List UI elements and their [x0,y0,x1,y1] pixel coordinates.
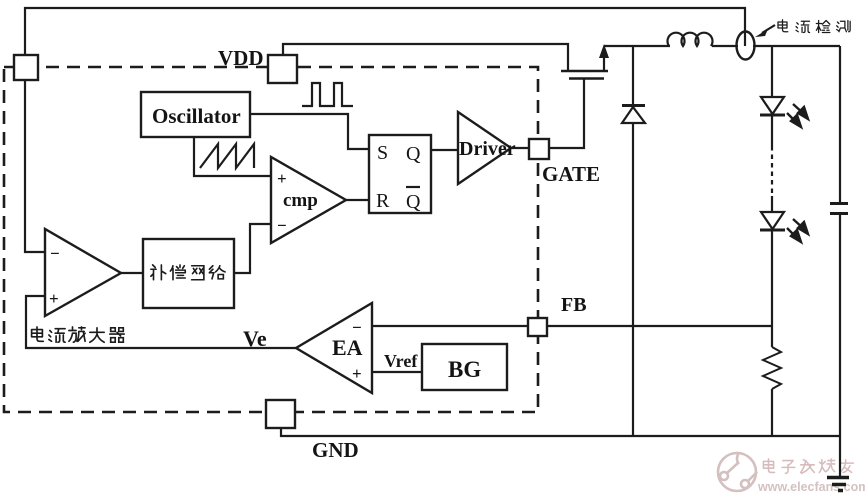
pad GATE [529,139,549,159]
buffer Driver [458,112,511,184]
watermark text dianzifashaoyou [763,459,853,473]
wire resistor to ground rail [771,389,773,436]
svg-text:Ve: Ve [243,326,267,351]
pad FB [528,318,547,336]
wire to LED2 [771,196,773,212]
wire FB net from EA inverting input to LED string [372,325,772,327]
svg-text:R: R [376,190,390,212]
svg-text:www.elecfans.com: www.elecfans.com [757,480,865,494]
wire oscillator sawtooth to cmp non-inverting input [194,136,272,176]
pad GND [266,400,295,428]
svg-text:Oscillator: Oscillator [152,104,241,128]
block compensation network [143,239,234,308]
op-amp EA error amplifier (points left) [296,303,372,393]
wire Ve rail to current-amp non-inverting input [26,296,297,348]
wire dotted LED string continuation [771,146,773,196]
wire EA non-inverting input to BG [372,371,423,373]
svg-text:GND: GND [312,438,359,462]
svg-text:+: + [49,289,59,308]
watermark elecfans logo [718,452,757,491]
svg-text:GATE: GATE [542,162,600,186]
wire cmp output to latch R input [345,199,370,201]
svg-text:+: + [352,364,362,383]
wire LED1 to dotted continuation [771,116,773,146]
wire oscillator output to latch S input [249,114,370,149]
pad sense input (top-left) [14,55,38,80]
block BG bandgap [422,344,507,390]
wire compensation network to cmp inverting input [233,224,272,273]
wire VDD pad to MOSFET drain [283,44,568,71]
svg-text:−: − [277,216,287,235]
svg-text:EA: EA [332,335,363,360]
svg-text:FB: FB [561,294,587,316]
wire current sensor to right rail [753,45,840,47]
svg-text:Vref: Vref [384,351,418,371]
wire switch node to inductor [604,45,670,47]
svg-text:BG: BG [448,357,481,382]
svg-text:cmp: cmp [283,190,318,211]
MOSFET Q1 channel bar [561,70,608,73]
diode D1 freewheel cathode bar [622,104,645,107]
ground symbol earth [827,478,849,491]
LED D2 light arrows [787,104,808,127]
current sensor ellipse [737,32,755,60]
resistor R1 zigzag [763,347,781,389]
wire capacitor to ground symbol [839,214,841,477]
wire MOSFET source to switch node [603,50,605,71]
wire top rail from sense input to current sensor [25,8,745,58]
block Oscillator U-osc [141,92,250,137]
wire inductor to current sensor [712,45,738,47]
wire left column to current-amp inverting input [25,78,46,252]
block SR latch [369,135,431,213]
LED D3 cathode bar [760,229,785,232]
arrowhead MOSFET source (up) [599,44,609,58]
svg-text:Q: Q [406,143,421,165]
waveform pulse train annotation [302,83,353,106]
inductor L1 [668,33,713,46]
LED D3 body [761,212,784,229]
LED D3 light arrows [787,219,808,242]
wire current-amp output to compensation network [120,272,143,274]
diode D1 body [622,107,645,123]
label buchangwangluo [151,265,225,280]
svg-text:Q: Q [406,191,421,213]
wire diode anode down to ground rail [632,124,634,436]
wire LED branch from node [771,46,773,97]
chip boundary dashed box [4,67,538,412]
wire freewheel diode branch [632,46,634,105]
svg-text:Driver: Driver [459,138,516,160]
arrow pointing at current sensor [762,25,775,33]
LED D2 cathode bar [760,114,785,117]
op-amp cmp comparator [271,157,346,243]
wire GND pad to ground rail [281,427,840,436]
label dianliujiance [778,20,850,33]
wire right rail down to capacitor [839,46,841,202]
wire latch Q output to Driver [431,149,459,151]
wire LED2 to resistor [771,231,773,347]
svg-text:−: − [50,244,60,263]
wire GATE pad to MOSFET gate [548,79,584,148]
svg-text:VDD: VDD [218,46,264,70]
pad VDD [268,55,297,83]
svg-text:S: S [377,142,388,164]
svg-text:+: + [277,169,287,188]
op-amp current amplifier [45,229,121,316]
MOSFET Q1 gate bar [569,77,604,80]
LED D2 body [761,97,784,114]
capacitor C1 plates [830,204,848,214]
svg-text:−: − [352,318,362,337]
label dianliufangdaqi [32,327,125,342]
wire Driver output to GATE pad [510,147,530,149]
waveform sawtooth annotation [200,144,254,168]
